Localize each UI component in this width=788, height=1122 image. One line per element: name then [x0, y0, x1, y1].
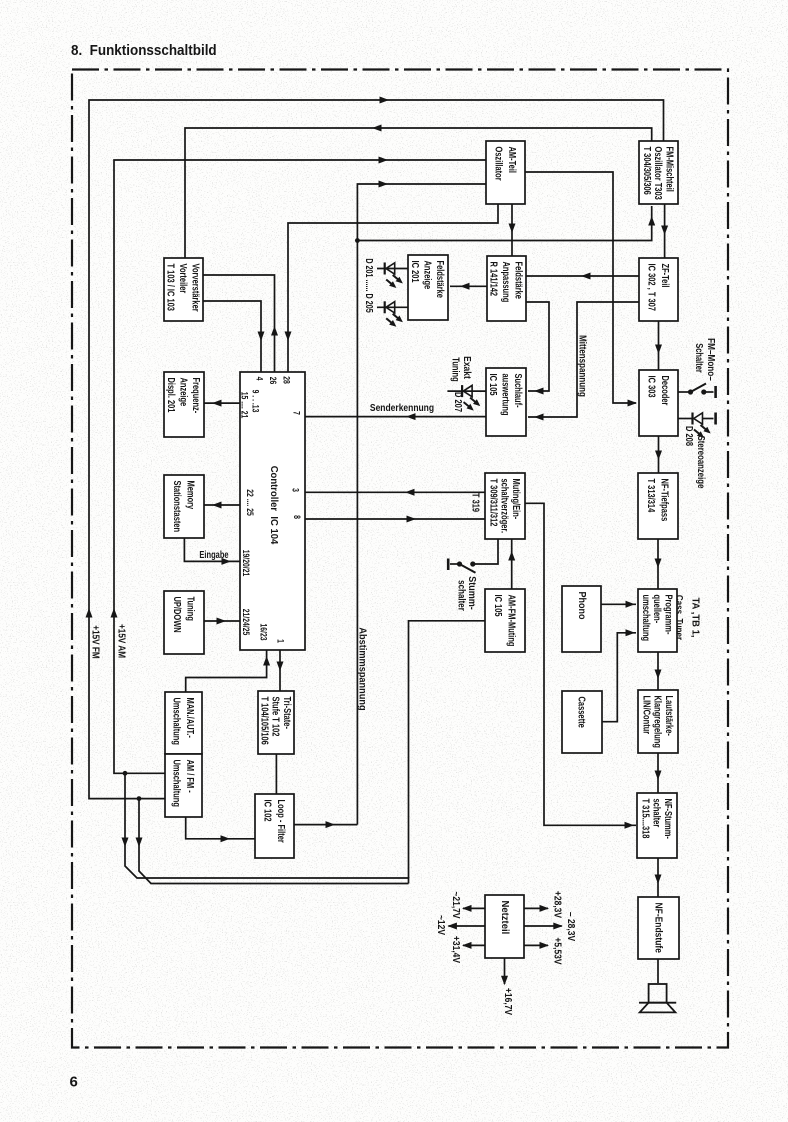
block AM/FM-Umschaltung — [165, 754, 202, 817]
svg-text:schaltverzöger.: schaltverzöger. — [499, 479, 510, 534]
pin 1 — [275, 639, 285, 643]
svg-text:schalter: schalter — [651, 799, 662, 828]
wire Eingabe Memory to Controller — [184, 538, 240, 561]
pins 9...13 — [250, 390, 260, 413]
arrow pin1 down — [277, 662, 284, 672]
label T 319 — [470, 493, 481, 512]
pin 3 — [290, 488, 300, 492]
arrow 28.3V — [540, 905, 550, 912]
label Exakt Tuning — [450, 356, 472, 382]
block FM-Mischteil Oszillator — [639, 141, 678, 204]
wire Netzteil 31.4V — [463, 944, 485, 946]
switch Stummschalter — [448, 539, 498, 573]
svg-text:6: 6 — [70, 1074, 78, 1091]
arrow +15V AM up — [111, 608, 118, 618]
wire +15V AM supply (vertical / run to AM-Teil) — [114, 160, 486, 773]
wire Anpassung to Suchlauf — [526, 302, 549, 391]
svg-text:MAN./AUT.-: MAN./AUT.- — [185, 698, 196, 738]
switch FM-Mono-Schalter — [678, 384, 716, 399]
svg-text:Decoder: Decoder — [660, 376, 671, 406]
svg-text:FM-Mischteil: FM-Mischteil — [664, 147, 675, 192]
svg-text:IC 105: IC 105 — [493, 595, 504, 617]
svg-text:IC 302 , T 307: IC 302 , T 307 — [646, 264, 657, 312]
svg-text:FM–Mono–: FM–Mono– — [706, 338, 717, 381]
arrow 5.53V — [540, 942, 550, 949]
svg-text:T 304/305/306: T 304/305/306 — [642, 147, 653, 195]
arrow 31.4V — [462, 942, 472, 949]
svg-text:Tuning: Tuning — [450, 357, 461, 381]
label ~21,7V — [451, 891, 462, 919]
wire Cassette to Programmquellen — [602, 633, 636, 722]
svg-text:28: 28 — [281, 376, 291, 384]
block Feldstaerke-Anzeige IC201 — [408, 255, 448, 320]
wire Muting to NF-Stummschalter — [525, 503, 636, 825]
svg-text:Oszillator T303: Oszillator T303 — [653, 147, 664, 200]
wire Phono to Programmquellen — [601, 603, 636, 605]
svg-text:~21,7V: ~21,7V — [451, 891, 462, 919]
svg-text:T 309/311/312: T 309/311/312 — [488, 479, 499, 527]
arrow 16.7V — [501, 976, 508, 986]
speaker — [639, 984, 676, 1012]
title: 8. Funktionsschaltbild — [71, 42, 217, 59]
svg-text:NF-Stumm-: NF-Stumm- — [663, 799, 674, 839]
label -28,3V — [566, 912, 577, 942]
svg-text:UP/DOWN: UP/DOWN — [172, 597, 183, 633]
block Programmquellen-Umschaltung — [638, 589, 677, 652]
arrow muting up — [508, 551, 515, 561]
wire NF-Endstufe to speaker — [657, 959, 659, 983]
svg-text:15 .... 21: 15 .... 21 — [239, 392, 249, 419]
wire Loop-Filter to Abstimmspannung — [294, 824, 357, 826]
svg-text:IC 105: IC 105 — [488, 374, 499, 396]
pin 4 — [254, 377, 264, 381]
svg-text:Controller IC 104: Controller IC 104 — [268, 466, 279, 545]
label +5,53V — [552, 937, 563, 965]
svg-text:Mittenspannung: Mittenspannung — [577, 335, 588, 397]
arrow stumm out down — [655, 875, 662, 885]
svg-text:AM-Teil: AM-Teil — [507, 147, 518, 174]
svg-text:AM / FM -: AM / FM - — [185, 760, 196, 793]
wire NF-Tiefpass to Programmquellen — [657, 539, 659, 589]
svg-text:Senderkennung: Senderkennung — [370, 402, 434, 413]
svg-text:+5,53V: +5,53V — [552, 937, 563, 965]
svg-text:Schalter: Schalter — [694, 343, 705, 373]
svg-text:7: 7 — [291, 411, 301, 415]
block MAN./AUT.-Umschaltung — [165, 692, 202, 754]
svg-text:Abstimmspannung: Abstimmspannung — [356, 627, 367, 710]
wire AM/FM-Umschaltung to Loop-Filter — [186, 817, 256, 839]
wire Programmquellen to Lautstaerke — [657, 652, 659, 690]
svg-text:NF-Tiefpass: NF-Tiefpass — [659, 479, 670, 522]
arrow loop in right — [221, 835, 231, 842]
svg-text:+16,7V: +16,7V — [503, 988, 514, 1016]
arrow lautstaerke out down — [655, 771, 662, 781]
block Controller IC104 — [240, 372, 305, 650]
svg-text:IC 102: IC 102 — [262, 800, 273, 822]
svg-text:Programm-: Programm- — [663, 595, 674, 635]
svg-text:R 141/142: R 141/142 — [488, 262, 499, 297]
svg-text:LIN/Contur: LIN/Contur — [641, 696, 652, 735]
arrow +15V FM up — [86, 608, 93, 618]
arrow pin4 down — [258, 332, 265, 342]
wire FM-Mischteil oscillator to Vorverstaerker — [185, 128, 652, 258]
wire FM switched branch down to bottom run — [139, 799, 409, 884]
wire MAN AUT to Controller pin 16/23 — [186, 650, 267, 692]
wire Mittenspannung ZF to Suchlauf — [528, 302, 639, 417]
block Frequenz-Anzeige Displ.201 — [164, 372, 204, 437]
svg-text:D 207: D 207 — [453, 392, 464, 412]
wire ZF-Teil to Decoder — [658, 321, 660, 370]
arrow decoder out down — [655, 451, 662, 461]
LED D207 Exakt Tuning — [447, 385, 486, 413]
svg-text:AM-FM-Muting: AM-FM-Muting — [506, 595, 517, 647]
svg-text:quellen-: quellen- — [652, 595, 663, 624]
block AM-Teil Oszillator — [486, 141, 525, 204]
svg-text:22 .... 25: 22 .... 25 — [245, 489, 255, 516]
label Abstimmspannung — [356, 627, 367, 710]
svg-text:Phono: Phono — [576, 592, 588, 620]
arrow 12V — [447, 923, 457, 930]
arrow phono right — [626, 601, 636, 608]
svg-text:9 . . .13: 9 . . .13 — [250, 390, 260, 413]
wire Tuning to Controller — [204, 620, 240, 622]
arrow mitten left — [534, 414, 544, 421]
arrow tiefpass out down — [655, 559, 662, 569]
arrow FM branch down — [136, 838, 143, 848]
LED D208 Stereoanzeige — [678, 413, 716, 441]
block Feldstaerke-Anpassung R141/142 — [487, 256, 526, 321]
arrow oscillator left — [372, 125, 382, 132]
wire ZF-Teil to Feldstaerke-Anpassung — [526, 275, 639, 277]
arrow anzeige left — [460, 283, 470, 290]
arrow pin3 left — [405, 489, 415, 496]
pin 26 — [268, 377, 278, 385]
arrow feldstaerke left — [581, 273, 591, 280]
arrow AM branch down — [122, 838, 129, 848]
svg-text:Eingabe: Eingabe — [199, 549, 228, 560]
svg-text:19/20/21: 19/20/21 — [241, 550, 251, 577]
pin 8 — [292, 515, 302, 519]
arrow FM to ZF down — [661, 226, 668, 236]
junction FM branch — [137, 796, 142, 801]
wire FM-Mischteil to ZF-Teil — [664, 204, 666, 258]
svg-text:T 319: T 319 — [470, 493, 481, 512]
wire Controller pin 26 to Vorverstaerker — [203, 275, 275, 372]
wire Decoder to NF-Tiefpass — [658, 436, 660, 473]
arrow abstimm right — [326, 821, 336, 828]
wire Netzteil 5.53V — [524, 944, 548, 946]
arrow anpassung down — [509, 224, 516, 234]
svg-text:Tri-State-: Tri-State- — [282, 697, 293, 730]
wire AM-Teil output to Decoder — [525, 172, 636, 403]
wire Netzteil -28.3V — [524, 925, 562, 927]
wire AM-Teil to Controller pin 28 — [288, 204, 498, 372]
svg-text:Anzeige: Anzeige — [178, 378, 189, 407]
arrow suchlauf left — [534, 388, 544, 395]
block Lautstaerke-Klangregelung — [638, 690, 678, 753]
arrow tuning right — [217, 618, 227, 625]
svg-text:26: 26 — [268, 377, 278, 385]
arrow AM run right — [379, 157, 389, 164]
block Vorverstaerker/Vorteiler T103/IC103 — [164, 258, 203, 321]
svg-text:T 103 / IC 103: T 103 / IC 103 — [165, 264, 176, 312]
block NF-Endstufe — [638, 897, 679, 959]
block Suchlaufauswertung IC105 — [486, 368, 526, 436]
arrow tuning to AM-Teil — [379, 181, 389, 188]
arrow cassette right — [626, 629, 636, 636]
wire AM-Teil to Feldstaerke-Anpassung — [511, 204, 513, 256]
wire Netzteil 16.7V — [504, 958, 506, 984]
wire Controller pin1 to Tri-State — [279, 650, 281, 691]
block Decoder IC303 — [639, 370, 678, 436]
svg-text:Vorteiler: Vorteiler — [178, 264, 189, 294]
svg-text:16/23: 16/23 — [258, 623, 268, 640]
arrow senderkennung left — [406, 413, 416, 420]
arrow pin28 down — [285, 332, 292, 342]
svg-text:T 104/105/106: T 104/105/106 — [259, 697, 270, 745]
block Tuning UP/DOWN — [164, 591, 204, 654]
arrow into NF-Stumm right — [625, 822, 635, 829]
wire Netzteil 12V — [448, 925, 485, 927]
svg-text:Suchlauf-: Suchlauf- — [513, 374, 524, 408]
svg-text:NF-Endstufe: NF-Endstufe — [653, 903, 664, 953]
arrow tuning to FM up — [648, 216, 655, 226]
pins 15...21 — [239, 392, 249, 419]
arrow pin16 up — [263, 656, 270, 666]
wire Tri-State to Loop-Filter — [275, 754, 277, 794]
block NF-Tiefpass T313/314 — [638, 473, 678, 539]
wire NF-Stummschalter to NF-Endstufe — [657, 858, 659, 897]
svg-text:21/24/25: 21/24/25 — [241, 609, 251, 636]
wire Abstimmspannung vertical — [357, 184, 486, 825]
label Senderkennung — [370, 402, 434, 413]
pins 16/23 — [258, 623, 268, 640]
svg-text:Anzeige: Anzeige — [422, 261, 433, 290]
svg-text:Oszillator: Oszillator — [493, 147, 504, 182]
svg-text:Netzteil: Netzteil — [499, 901, 510, 935]
arrow into Decoder — [628, 400, 638, 407]
svg-text:– 28,3V: – 28,3V — [566, 912, 577, 942]
svg-text:umschaltung: umschaltung — [641, 595, 652, 642]
label +16,7V — [503, 988, 514, 1016]
label FM-Mono-Schalter — [694, 338, 717, 381]
svg-text:Stationstasten: Stationstasten — [172, 481, 183, 533]
svg-text:Frequenz-: Frequenz- — [191, 378, 202, 414]
svg-text:Tuning: Tuning — [185, 597, 196, 621]
svg-text:Anpassung: Anpassung — [501, 262, 512, 303]
wire Controller to Memory — [204, 504, 240, 506]
pins 21/24/25 — [241, 609, 251, 636]
label Eingabe — [199, 549, 228, 560]
label +15V AM — [116, 624, 127, 658]
block Tri-State-Stufe T102 — [258, 691, 294, 754]
arrow memory left — [212, 502, 222, 509]
label +15V FM — [90, 625, 101, 658]
arrow 21.7V — [462, 905, 472, 912]
block Muting/Einschaltverzoegerung — [485, 473, 525, 539]
arrow pin8 right — [407, 516, 417, 523]
label D 208 — [684, 426, 695, 446]
svg-text:Cassette: Cassette — [576, 697, 587, 728]
svg-text:T 315....318: T 315....318 — [640, 799, 651, 839]
svg-text:IC 303: IC 303 — [646, 376, 657, 398]
page number 6 — [70, 1074, 78, 1091]
svg-text:+28,3V: +28,3V — [552, 891, 563, 919]
label Mittenspannung — [577, 335, 588, 397]
block NF-Stummschalter T315-318 — [637, 793, 677, 858]
wire Anpassung to Anzeige — [450, 285, 487, 287]
svg-text:Stufe T 102: Stufe T 102 — [270, 697, 281, 737]
block Netzteil — [485, 895, 524, 958]
label Stummschalter — [456, 576, 477, 611]
svg-text:Memory: Memory — [185, 481, 196, 510]
pin 7 — [291, 411, 301, 415]
svg-text:D 208: D 208 — [684, 426, 695, 446]
svg-text:D 201 ...... D 205: D 201 ...... D 205 — [364, 258, 375, 312]
label +28,3V — [552, 891, 563, 919]
LED D201 Feldstaerkeanzeige — [377, 263, 409, 291]
arrow pin26 up — [271, 326, 278, 336]
label D 207 — [453, 392, 464, 412]
svg-text:+15V FM: +15V FM — [90, 625, 101, 658]
svg-text:~12V: ~12V — [436, 915, 447, 936]
svg-text:Umschaltung: Umschaltung — [171, 698, 182, 745]
label ~12V — [436, 915, 447, 936]
label D 201 ... D 205 — [364, 258, 375, 312]
svg-text:Umschaltung: Umschaltung — [171, 760, 182, 807]
svg-text:3: 3 — [290, 488, 300, 492]
svg-text:8. Funktionsschaltbild: 8. Funktionsschaltbild — [71, 42, 217, 59]
pin 28 — [281, 376, 291, 384]
svg-text:Exakt: Exakt — [462, 356, 473, 379]
svg-text:Lautstärke-: Lautstärke- — [664, 696, 675, 736]
block Memory Stationstasten — [164, 475, 204, 538]
svg-text:Loop - Filter: Loop - Filter — [276, 800, 287, 844]
arrow -28.3V — [553, 923, 563, 930]
junction AM branch — [123, 771, 128, 776]
pins 19/20/21 — [241, 550, 251, 577]
arrow eingabe right — [222, 558, 232, 565]
svg-text:T 313/314: T 313/314 — [646, 479, 657, 513]
wire Vorverstaerker to Controller pin 4 — [203, 301, 261, 372]
svg-text:Vorverstärker: Vorverstärker — [190, 264, 201, 313]
svg-text:Stereoanzeige: Stereoanzeige — [696, 436, 707, 489]
svg-text:Feldstärke: Feldstärke — [513, 262, 524, 300]
svg-text:Displ. 201: Displ. 201 — [166, 378, 177, 413]
label +31,4V — [451, 936, 462, 964]
svg-text:ZF-Teil: ZF-Teil — [660, 264, 671, 288]
block Phono — [562, 586, 601, 652]
svg-text:TA ,TB 1,: TA ,TB 1, — [689, 597, 700, 637]
wire Lautstaerke to NF-Stummschalter — [657, 753, 659, 793]
svg-text:+31,4V: +31,4V — [451, 936, 462, 964]
svg-text:+15V AM: +15V AM — [116, 624, 127, 658]
wire Netzteil 28.3V — [524, 907, 548, 909]
LED D205 Feldstaerkeanzeige — [377, 301, 409, 329]
svg-text:4: 4 — [254, 377, 264, 381]
svg-text:Klangregelung: Klangregelung — [652, 696, 663, 748]
block AM-FM-Muting IC105 — [485, 589, 525, 652]
arrow frequenz left — [212, 400, 222, 407]
svg-text:auswertung: auswertung — [500, 374, 511, 416]
label TA TB1 Cass Tuner — [674, 595, 701, 641]
arrow ZF to Decoder down — [655, 345, 662, 355]
junction Abstimmspannung — [355, 238, 360, 243]
pins 22...25 — [245, 489, 255, 516]
block Cassette — [562, 691, 602, 753]
wire +15V FM supply (left vertical / top run to FM-Mischteil) — [89, 100, 664, 799]
label Stereoanzeige — [696, 436, 707, 489]
svg-text:1: 1 — [275, 639, 285, 643]
wire Netzteil 21.7V — [463, 907, 485, 909]
block Loop-Filter IC102 — [255, 794, 294, 858]
svg-text:Feldstärke: Feldstärke — [435, 261, 446, 299]
wire Muting to Controller pin 3 — [305, 491, 485, 493]
wire Controller pin 8 to Muting — [305, 518, 485, 520]
wire AM-FM-Muting supply from bottom run — [409, 621, 486, 878]
wire Controller to Frequenzanzeige — [204, 402, 240, 404]
svg-text:IC 201: IC 201 — [410, 261, 421, 283]
svg-text:8: 8 — [292, 515, 302, 519]
arrow programm out down — [655, 670, 662, 680]
svg-text:Muting/Ein-: Muting/Ein- — [511, 479, 522, 520]
wire AM switched branch down to bottom run — [125, 773, 409, 883]
wire Senderkennung Suchlauf to Controller pin 7 — [305, 416, 486, 418]
wire AM-FM-Muting to Muting — [511, 539, 513, 589]
svg-text:schalter: schalter — [456, 580, 467, 611]
arrow top run right — [380, 97, 390, 104]
block ZF-Teil IC302 T307 — [639, 258, 678, 321]
wire tuning voltage to FM-Mischteil — [357, 206, 651, 241]
